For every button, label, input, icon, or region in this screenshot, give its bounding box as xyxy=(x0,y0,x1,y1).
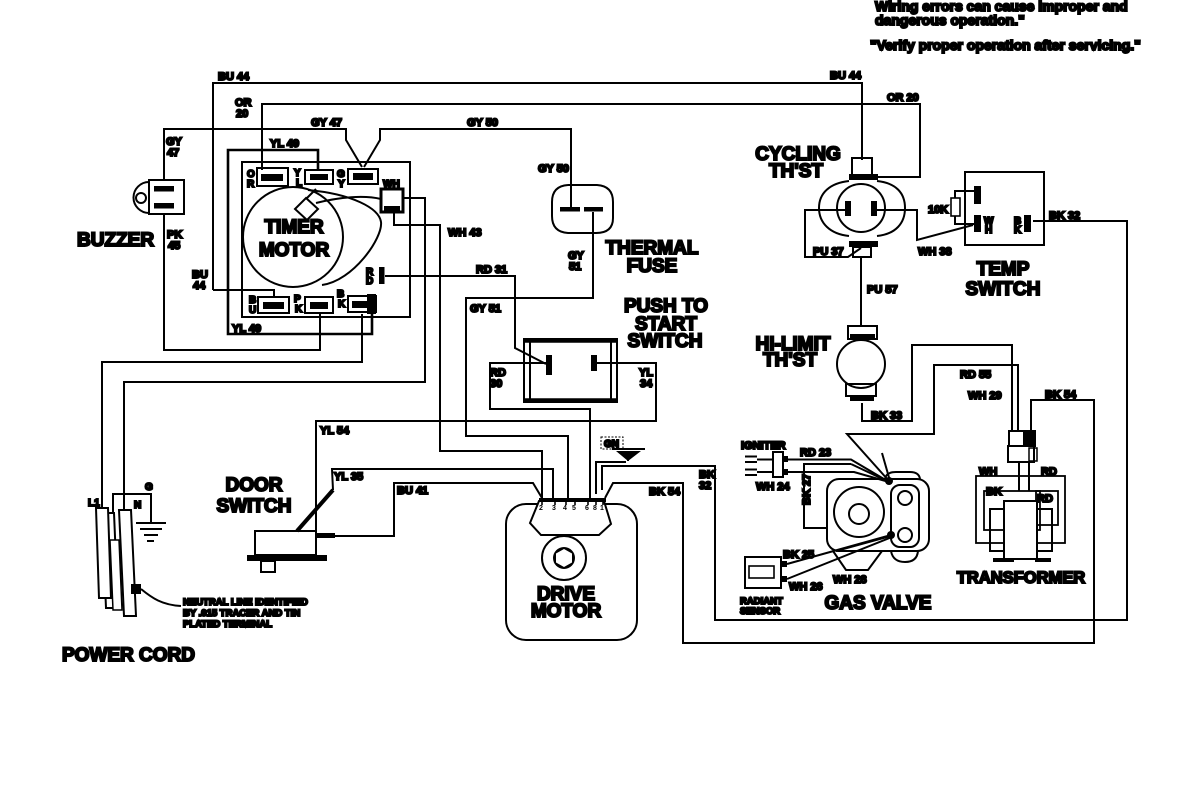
svg-text:YL 35: YL 35 xyxy=(334,471,363,483)
timer terminal YL xyxy=(294,168,333,189)
svg-text:Y: Y xyxy=(338,179,345,190)
timer terminal WH xyxy=(381,179,403,212)
timer terminal PK xyxy=(294,294,333,315)
svg-text:RD 55: RD 55 xyxy=(960,369,991,381)
wire GY51 thermal fuse to motor pin 4 xyxy=(466,212,593,498)
gas valve xyxy=(827,472,929,570)
timer terminal RD xyxy=(366,267,385,287)
wire BK25 sensor to gas valve xyxy=(783,535,891,564)
wire WH26 sensor to gas valve xyxy=(787,537,892,593)
wire GY50 timer to thermal fuse xyxy=(364,117,571,207)
door switch xyxy=(217,475,335,572)
node gas valve terminal junction bottom xyxy=(887,531,895,539)
svg-text:20: 20 xyxy=(236,108,248,120)
wire GY47 buzzer to timer xyxy=(164,117,362,181)
svg-text:WH: WH xyxy=(979,466,997,478)
svg-text:K: K xyxy=(295,304,303,315)
svg-text:G: G xyxy=(145,482,153,493)
svg-text:TEMP: TEMP xyxy=(977,259,1030,280)
svg-text:NEUTRAL LINE IDENTIFIED: NEUTRAL LINE IDENTIFIED xyxy=(183,597,308,608)
svg-text:"Verify proper operation after: "Verify proper operation after servicing… xyxy=(870,37,1141,53)
svg-text:FUSE: FUSE xyxy=(627,256,678,277)
wire RD30 push-to-start to motor pin 6 xyxy=(490,363,590,498)
svg-text:8: 8 xyxy=(593,505,597,512)
timer terminal GY xyxy=(337,169,378,190)
timer terminal BU xyxy=(249,295,289,316)
svg-text:51: 51 xyxy=(569,261,581,273)
svg-text:47: 47 xyxy=(167,147,179,159)
svg-text:IGNITER: IGNITER xyxy=(741,440,786,452)
svg-text:BK 33: BK 33 xyxy=(871,410,902,422)
svg-text:32: 32 xyxy=(699,480,711,492)
timer box xyxy=(242,162,410,317)
svg-text:6: 6 xyxy=(585,505,589,512)
wire WH24 igniter to gas valve xyxy=(756,472,889,493)
svg-text:RD: RD xyxy=(1041,466,1057,478)
svg-text:44: 44 xyxy=(193,280,206,292)
svg-text:1: 1 xyxy=(600,505,604,512)
drive motor pin numbers 2 3 4 5 6 8 1 xyxy=(539,505,604,512)
svg-text:WH 28: WH 28 xyxy=(833,574,867,586)
svg-text:BUZZER: BUZZER xyxy=(77,230,154,251)
wire WH28 xyxy=(833,536,891,586)
wire BK32 motor to temp switch BK terminal xyxy=(602,210,1127,620)
svg-text:BU 44: BU 44 xyxy=(830,70,862,82)
svg-text:OR 20: OR 20 xyxy=(887,92,919,104)
svg-text:GY 50: GY 50 xyxy=(467,117,498,129)
power cord xyxy=(62,482,308,666)
svg-text:POWER CORD: POWER CORD xyxy=(62,645,195,666)
svg-text:PU 37: PU 37 xyxy=(813,246,844,258)
svg-text:YL 49: YL 49 xyxy=(270,138,299,150)
wire YL34 / YL54 push-to-start to door switch xyxy=(316,363,656,531)
wire BK27 xyxy=(801,453,890,528)
svg-text:BK 25: BK 25 xyxy=(783,549,814,561)
warning note text xyxy=(870,0,1141,53)
timer motor circle and cam xyxy=(243,187,381,287)
svg-text:3: 3 xyxy=(552,505,556,512)
svg-text:K: K xyxy=(1014,225,1022,236)
transformer connector collar xyxy=(1008,431,1037,491)
wire L1 black line power cord to timer BK terminal xyxy=(102,314,362,510)
svg-text:WH 38: WH 38 xyxy=(918,246,952,258)
svg-text:BK: BK xyxy=(986,486,1002,498)
wire YL49 loop around timer xyxy=(228,138,372,335)
transformer xyxy=(957,466,1085,587)
wire WH29 gas valve to transformer connector xyxy=(847,365,1018,481)
svg-text:34: 34 xyxy=(640,378,653,390)
svg-text:45: 45 xyxy=(168,240,180,252)
ground G of power cord xyxy=(113,494,166,541)
wire PU37 xyxy=(805,210,861,258)
svg-text:H: H xyxy=(985,225,992,236)
svg-text:4: 4 xyxy=(563,505,567,512)
svg-text:BK 54: BK 54 xyxy=(1045,389,1077,401)
svg-text:WH 43: WH 43 xyxy=(448,227,482,239)
svg-text:N: N xyxy=(134,500,141,511)
svg-text:RD 23: RD 23 xyxy=(800,447,831,459)
svg-text:30: 30 xyxy=(490,378,502,390)
svg-text:PU 57: PU 57 xyxy=(867,284,898,296)
svg-text:dangerous operation.": dangerous operation." xyxy=(875,12,1025,28)
wire WH neutral timer WH terminal to power cord N xyxy=(124,198,425,511)
svg-text:GAS VALVE: GAS VALVE xyxy=(825,593,932,614)
wire WH38 cycling to temp switch xyxy=(877,210,973,258)
svg-text:5: 5 xyxy=(572,505,576,512)
svg-text:RD: RD xyxy=(1037,493,1053,505)
svg-text:SWITCH: SWITCH xyxy=(966,279,1041,300)
svg-text:YL 54: YL 54 xyxy=(320,425,350,437)
svg-text:U: U xyxy=(249,305,256,316)
svg-text:SWITCH: SWITCH xyxy=(217,496,292,517)
svg-text:GY 50: GY 50 xyxy=(538,163,569,175)
svg-text:GY 47: GY 47 xyxy=(311,117,342,129)
node gas valve terminal junction top xyxy=(885,477,893,485)
svg-text:R: R xyxy=(247,179,255,190)
timer terminal BK xyxy=(337,289,376,314)
svg-text:WH 29: WH 29 xyxy=(968,390,1002,402)
svg-text:D: D xyxy=(366,276,373,287)
svg-text:BK 27: BK 27 xyxy=(801,474,813,505)
wire WH43 timer to motor pin xyxy=(394,213,542,498)
wire PU57 cycling to hi-limit xyxy=(861,257,898,326)
resistor 10K in temp switch xyxy=(928,191,974,224)
wire BK54 motor pin 1 to transformer xyxy=(605,389,1094,643)
svg-text:BU 41: BU 41 xyxy=(397,485,428,497)
svg-text:TIMER: TIMER xyxy=(264,217,323,238)
svg-text:WH: WH xyxy=(383,179,400,190)
svg-text:WH 24: WH 24 xyxy=(756,481,791,493)
svg-text:2: 2 xyxy=(539,505,543,512)
svg-text:PLATED TERMINAL: PLATED TERMINAL xyxy=(183,619,272,630)
wire YL35 door switch to motor pin 3 xyxy=(332,469,553,498)
svg-text:GN: GN xyxy=(604,439,619,450)
svg-text:BU 44: BU 44 xyxy=(218,71,250,83)
svg-text:TH'ST: TH'ST xyxy=(763,350,818,371)
svg-text:MOTOR: MOTOR xyxy=(531,601,602,622)
wire OR20 xyxy=(235,92,920,177)
timer terminal OR xyxy=(247,168,288,190)
wire PK45 buzzer to timer PK terminal xyxy=(164,214,320,350)
svg-text:BK 54: BK 54 xyxy=(649,486,681,498)
radiant sensor xyxy=(740,557,787,617)
svg-text:GY 51: GY 51 xyxy=(470,303,501,315)
svg-text:TH'ST: TH'ST xyxy=(769,161,824,182)
svg-text:RD 31: RD 31 xyxy=(476,264,507,276)
buzzer xyxy=(77,180,184,251)
svg-text:MOTOR: MOTOR xyxy=(259,240,330,261)
svg-text:DOOR: DOOR xyxy=(226,475,283,496)
push to start switch xyxy=(524,296,708,402)
svg-text:L1: L1 xyxy=(88,498,100,509)
wire BU41 door switch to motor pin 2 xyxy=(335,483,542,536)
drive motor xyxy=(506,500,637,640)
svg-text:BK 32: BK 32 xyxy=(1049,210,1080,222)
svg-text:BY .015 TRACER AND TIN: BY .015 TRACER AND TIN xyxy=(183,608,300,619)
drive motor name label xyxy=(531,584,602,622)
temp switch xyxy=(965,172,1044,300)
svg-text:WH 26: WH 26 xyxy=(789,581,823,593)
igniter xyxy=(741,440,788,477)
wire BU44 (top loop left) xyxy=(192,70,862,298)
wire RD23 igniter to gas valve xyxy=(788,447,889,482)
hi-limit thermostat xyxy=(756,326,885,401)
wire RD31 timer RD terminal to push-to-start xyxy=(385,264,546,364)
wire BK33 / RD55 hi-limit to transformer connector xyxy=(862,345,1012,431)
thermal fuse xyxy=(552,185,699,277)
svg-text:SENSOR: SENSOR xyxy=(740,606,780,617)
cycling thermostat xyxy=(755,144,905,257)
ground GN at drive motor xyxy=(596,437,645,494)
svg-text:YL 49: YL 49 xyxy=(232,323,261,335)
svg-text:SWITCH: SWITCH xyxy=(628,331,703,352)
svg-text:10K: 10K xyxy=(928,204,948,216)
svg-text:TRANSFORMER: TRANSFORMER xyxy=(957,569,1085,587)
svg-text:K: K xyxy=(338,299,346,310)
